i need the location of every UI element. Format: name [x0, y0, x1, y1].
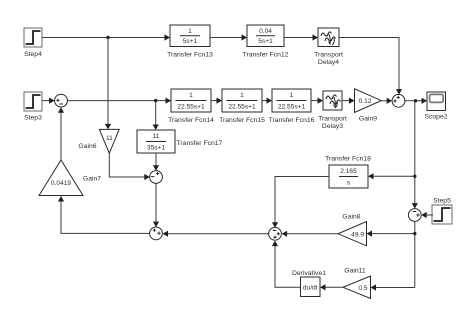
svg-text:1: 1: [290, 92, 294, 99]
wire: Gain11 output to Derivative1 input: [320, 284, 343, 290]
svg-text:Transport: Transport: [318, 116, 347, 123]
junction node at Gain8 branch: [413, 232, 416, 235]
wire: Gain9 output to sum A left input: [381, 98, 392, 104]
svg-text:35s+1: 35s+1: [147, 145, 165, 152]
svg-text:Delay4: Delay4: [318, 59, 339, 66]
junction node on middle wire feeding Transfer Fcn17: [154, 99, 157, 102]
wire: feedback from scope wire down to sum C top input: [412, 101, 418, 209]
svg-text:Transfer Fcn13: Transfer Fcn13: [167, 52, 213, 59]
svg-text:Transfer Fcn16: Transfer Fcn16: [269, 117, 315, 124]
svg-text:0.04: 0.04: [259, 28, 272, 35]
svg-text:Transfer Fcn15: Transfer Fcn15: [219, 117, 265, 124]
svg-text:22.55s+1: 22.55s+1: [228, 104, 256, 111]
wire: sum F output left then up to Gain7 input: [58, 196, 150, 233]
wire: sum E output down to sum F top input: [153, 183, 159, 227]
svg-text:Transfer Fcn18: Transfer Fcn18: [325, 156, 371, 163]
wire: Transfer Fcn13 to Transfer Fcn12: [210, 34, 247, 40]
wire: Transport Delay3 to Gain9 input: [342, 98, 355, 104]
transfer function Transfer Fcn14 (1/(22.55s+1)): [171, 89, 211, 112]
wire: branch left into Gain8 input: [367, 231, 415, 237]
wire: branch from Step4 wire down to Gain6 input (crosses middle wire): [105, 38, 111, 130]
step source Step4: [24, 28, 42, 47]
junction node on scope wire feeding feedback line: [414, 99, 417, 102]
wire: Step4 output to Transfer Fcn13 input: [42, 34, 170, 40]
wire: Transfer Fcn17 output down to sum E top input: [153, 153, 159, 171]
svg-text:Step4: Step4: [24, 51, 42, 58]
svg-text:Step3: Step3: [24, 115, 42, 122]
svg-text:1: 1: [189, 92, 193, 99]
wire: Gain8 output to sum D right input: [282, 231, 338, 237]
derivative block Derivative1 (du/dt), flipped: [301, 277, 321, 297]
wire: Transfer Fcn14 to Transfer Fcn15: [211, 98, 222, 104]
svg-text:Scope2: Scope2: [424, 114, 447, 121]
wire: Step5 output to sum C right input: [421, 212, 433, 218]
svg-text:22.55s+1: 22.55s+1: [177, 104, 205, 111]
gain Gain11 (0.5), flipped left-pointing: [343, 276, 371, 299]
svg-text:2.165: 2.165: [340, 168, 357, 175]
svg-text:11: 11: [153, 133, 160, 140]
wire: sum B output to Transfer Fcn14 input: [67, 98, 171, 104]
svg-text:Transport: Transport: [314, 52, 343, 59]
wire: branch down from middle wire to Transfer Fcn17 input: [153, 101, 159, 130]
wire: sum A output to Scope2 input: [405, 98, 427, 104]
svg-text:5s+1: 5s+1: [258, 38, 273, 45]
wire: Transfer Fcn12 to Transport Delay4: [284, 34, 318, 40]
svg-text:1: 1: [188, 28, 192, 35]
svg-text:Transfer Fcn12: Transfer Fcn12: [243, 52, 289, 59]
svg-text:0.12: 0.12: [359, 98, 372, 105]
transfer function Transfer Fcn12 (0.04/(5s+1)): [247, 25, 284, 47]
junction node on Step4 wire: [106, 36, 109, 39]
sum junction B (after Step3, plus/minus): [55, 94, 68, 107]
wire: Gain7 output up to sum B bottom (minus) input: [58, 107, 64, 160]
transfer function U: Transfer Fcn13 (1/(5s+1)): [170, 25, 210, 47]
gain Gain9 (0.12): [355, 89, 382, 113]
transfer function Transfer Fcn18 (2.165/s), flipped right-to-left: [329, 165, 368, 188]
svg-text:Transfer Fcn14: Transfer Fcn14: [168, 117, 214, 124]
svg-text:Gain7: Gain7: [83, 176, 101, 183]
wire: Transfer Fcn18 output left then down to sum D top input: [272, 177, 329, 228]
svg-text:Gain9: Gain9: [359, 116, 377, 123]
sum junction A (before Scope2): [392, 94, 405, 107]
wire: branch left into Transfer Fcn18 right-side input: [368, 173, 415, 179]
sum junction F (lower middle): [150, 227, 163, 240]
sum junction E (below Transfer Fcn17): [150, 171, 163, 184]
step source Step3: [24, 92, 42, 111]
wire: Transfer Fcn16 to Transport Delay3: [311, 98, 323, 104]
sum junction D (centre right): [269, 227, 282, 240]
wire: Step3 output to sum B left input: [42, 98, 55, 104]
svg-text:du/dt: du/dt: [303, 285, 318, 292]
wire: Transfer Fcn15 to Transfer Fcn16: [262, 98, 272, 104]
junction node on feedback line at Transfer Fcn18 branch: [413, 175, 416, 178]
svg-text:11: 11: [106, 135, 113, 142]
transfer function Transfer Fcn16 (1/(22.55s+1)): [272, 89, 311, 112]
sum junction C (near Step5): [408, 209, 421, 222]
wire: bottom run left into Gain11 input: [371, 284, 415, 290]
gain Gain7 (0.0419): [39, 160, 83, 196]
svg-text:Gain8: Gain8: [342, 214, 360, 221]
wire: Gain6 output down then right to sum E left input: [109, 153, 150, 180]
svg-text:1: 1: [240, 92, 244, 99]
svg-text:Transfer Fcn17: Transfer Fcn17: [177, 140, 223, 147]
svg-text:49.9: 49.9: [351, 231, 364, 238]
transfer function Transfer Fcn15 (1/(22.55s+1)): [222, 89, 262, 112]
gain Gain8 (49.9), flipped left-pointing: [338, 222, 367, 246]
transport delay block Transport Delay4: [318, 28, 339, 47]
transport delay block Transport Delay3: [323, 91, 342, 110]
scope block Scope2: [427, 92, 446, 111]
svg-text:Step5: Step5: [433, 198, 451, 205]
svg-text:0.5: 0.5: [358, 285, 367, 292]
svg-text:0.0419: 0.0419: [51, 180, 72, 187]
wire: Derivative1 output left and up to sum D bottom input: [272, 241, 301, 288]
svg-text:Gain11: Gain11: [344, 268, 366, 275]
gain Gain6 (11): [99, 129, 119, 153]
svg-text:Delay3: Delay3: [322, 123, 343, 130]
step source Step5: [432, 205, 452, 224]
svg-text:22.55s+1: 22.55s+1: [278, 104, 306, 111]
wire: sum C output down, with branches to Gain8 and Gain11: [414, 221, 416, 287]
svg-text:5s+1: 5s+1: [183, 38, 198, 45]
svg-text:Derivative1: Derivative1: [292, 270, 326, 277]
wire: sum D output left to sum F right input: [163, 231, 269, 237]
svg-text:Gain6: Gain6: [78, 143, 96, 150]
transfer function Transfer Fcn17 (11/(35s+1)): [137, 130, 175, 153]
wire: Transport Delay4 right then down to sum A top input: [339, 38, 402, 95]
